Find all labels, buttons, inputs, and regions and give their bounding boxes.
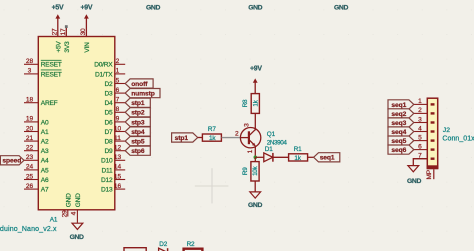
J2 pin 1 [414, 98, 435, 105]
pin 27 +5V (top) [51, 28, 62, 53]
svg-text:10k: 10k [252, 166, 259, 176]
svg-text:28: 28 [26, 58, 34, 65]
svg-text:MP: MP [426, 169, 433, 179]
ground symbol (J2) [407, 166, 421, 186]
svg-text:R1: R1 [294, 146, 302, 153]
svg-text:D7: D7 [104, 129, 113, 136]
svg-text:10: 10 [114, 125, 122, 132]
global label onoff [125, 79, 153, 88]
svg-text:D4: D4 [104, 100, 113, 107]
svg-text:2: 2 [418, 107, 422, 114]
svg-text:3: 3 [28, 68, 32, 75]
svg-text:Conn_01x07: Conn_01x07 [442, 135, 474, 142]
svg-text:GND: GND [75, 193, 82, 207]
svg-text:D2: D2 [159, 241, 167, 248]
svg-text:29: 29 [62, 210, 69, 217]
wire J2 pin7 to ground [413, 159, 428, 166]
svg-text:stp2: stp2 [131, 110, 145, 117]
svg-text:stp1: stp1 [131, 100, 145, 107]
pin 25 A6 (left) [24, 173, 49, 184]
svg-text:A4: A4 [41, 158, 49, 165]
pin 8 D5 (right) [104, 106, 125, 117]
svg-text:11: 11 [114, 135, 121, 142]
global label stp1 [125, 98, 150, 107]
power symbol +9V (top) [81, 5, 93, 37]
svg-text:13: 13 [114, 154, 122, 161]
svg-text:1k: 1k [253, 99, 260, 106]
svg-text:25: 25 [26, 173, 34, 180]
pin 1 D1/TX (right) [95, 68, 125, 79]
resistor R9 [242, 162, 259, 181]
J2 pin 2 [414, 107, 435, 114]
svg-text:D0/RX: D0/RX [94, 62, 113, 69]
svg-text:12: 12 [114, 145, 122, 152]
global label stp1 (input) [172, 133, 198, 142]
svg-text:D1/TX: D1/TX [95, 71, 113, 78]
svg-text:seq1: seq1 [391, 102, 406, 109]
wire D1 to R1 [273, 156, 289, 158]
svg-text:20: 20 [26, 125, 34, 132]
pin 21 A2 (left) [24, 135, 49, 146]
svg-text:1k: 1k [209, 135, 216, 142]
pin 13 D10 (right) [101, 154, 125, 165]
svg-text:14: 14 [114, 164, 122, 171]
svg-text:+5V: +5V [52, 5, 64, 12]
pin 15 D12 (right) [101, 173, 125, 184]
svg-text:Arduino_Nano_v2.x: Arduino_Nano_v2.x [0, 226, 57, 233]
svg-text:A3: A3 [41, 148, 49, 155]
svg-text:seq5: seq5 [391, 138, 406, 145]
svg-text:A5: A5 [41, 167, 49, 174]
global label stp5 [125, 137, 150, 146]
svg-text:D8: D8 [104, 139, 113, 146]
pin 7 D4 (right) [104, 97, 125, 108]
wire R1 to seq1 label [308, 156, 314, 158]
svg-text:R8: R8 [242, 99, 249, 107]
svg-text:R2: R2 [187, 241, 195, 248]
connector J2 body [427, 98, 439, 169]
svg-text:A1: A1 [41, 129, 49, 136]
diode D2 (cut off) [159, 241, 168, 251]
svg-text:stp4: stp4 [131, 129, 145, 136]
junction node (emitter) [254, 156, 258, 160]
svg-text:A6: A6 [41, 177, 49, 184]
svg-text:GND: GND [248, 5, 262, 12]
power symbol +5V [52, 5, 64, 37]
svg-text:4: 4 [418, 125, 422, 132]
resistor R2 (cut off) [184, 241, 203, 251]
ground symbol (R9) [248, 192, 262, 209]
svg-text:18: 18 [26, 97, 34, 104]
svg-text:5: 5 [418, 134, 422, 141]
svg-text:speed: speed [2, 158, 21, 165]
svg-text:9: 9 [116, 116, 120, 123]
svg-text:D9: D9 [104, 148, 113, 155]
pin 26 A7 (left) [24, 183, 49, 194]
resistor R7 [202, 126, 221, 142]
svg-text:30: 30 [80, 28, 87, 35]
J2 pin 6 [414, 143, 435, 150]
svg-text:GND: GND [65, 193, 72, 207]
global label seq1 (J2) [388, 100, 414, 109]
svg-text:VIN: VIN [84, 42, 91, 53]
pin 2 D0/RX (right) [94, 58, 125, 69]
J2 pin MP [426, 169, 434, 179]
J2 pin 5 [414, 134, 435, 141]
svg-text:27: 27 [51, 28, 58, 35]
pin 28 RESET (left) [24, 58, 62, 69]
svg-text:seq4: seq4 [391, 129, 406, 136]
pin 4 GND (bottom) [70, 193, 82, 223]
pin 6 D3 (right) [104, 87, 125, 98]
svg-text:D3: D3 [104, 91, 113, 98]
pin 24 A5 (left) [24, 164, 49, 175]
svg-text:GND: GND [248, 202, 262, 209]
svg-text:stp1: stp1 [175, 135, 189, 142]
pin 3 RESET (left) [24, 68, 62, 79]
pin 30 VIN (top) [80, 28, 91, 53]
svg-text:D13: D13 [101, 187, 113, 194]
svg-text:D2: D2 [104, 81, 113, 88]
svg-text:R9: R9 [242, 167, 249, 175]
svg-text:seq6: seq6 [391, 147, 406, 154]
global label stp6 [125, 146, 150, 155]
svg-text:stp3: stp3 [131, 119, 145, 126]
svg-text:17: 17 [60, 28, 67, 35]
pin 11 D8 (right) [104, 135, 125, 146]
resistor R8 [242, 94, 259, 114]
svg-text:D5: D5 [104, 110, 113, 117]
J2 pin 3 [414, 116, 435, 123]
global label stp4 [125, 127, 150, 136]
svg-text:7: 7 [116, 97, 120, 104]
J2 pin 4 [414, 125, 435, 132]
global label seq1 (near R1) [314, 153, 340, 162]
svg-text:R7: R7 [208, 126, 216, 133]
svg-text:1: 1 [418, 98, 422, 105]
pin 10 D7 (right) [104, 125, 125, 136]
pin 16 D13 (right) [101, 183, 125, 194]
pin 17 3V3 (top) [60, 25, 71, 52]
pin 29 GND (bottom) [62, 193, 73, 217]
svg-text:2: 2 [235, 131, 239, 138]
svg-text:A7: A7 [41, 187, 49, 194]
svg-text:1k: 1k [294, 155, 301, 162]
wire R9 to ground [254, 181, 256, 192]
transistor Q1 2N3904 [235, 123, 287, 157]
wire R8 to Q1 collector [254, 113, 256, 130]
global label numstp [125, 89, 160, 98]
svg-text:Q1: Q1 [267, 131, 276, 138]
pin 14 D11 (right) [102, 164, 126, 175]
svg-text:+9V: +9V [250, 66, 262, 73]
svg-text:seq1: seq1 [320, 155, 335, 162]
svg-text:seq2: seq2 [391, 111, 406, 118]
svg-text:seq3: seq3 [391, 120, 406, 127]
power symbol +9V (middle) [250, 66, 262, 94]
pin 5 D2 (right) [104, 77, 125, 88]
svg-text:A0: A0 [41, 119, 49, 126]
svg-text:6: 6 [418, 143, 422, 150]
svg-text:5: 5 [116, 77, 120, 84]
wire stp1 to R7 [198, 137, 203, 139]
svg-text:AREF: AREF [41, 100, 58, 107]
pin 20 A1 (left) [24, 125, 49, 136]
svg-text:GND: GND [70, 234, 84, 241]
J2 pin 7 [414, 153, 435, 160]
svg-text:3: 3 [418, 116, 422, 123]
svg-text:D11: D11 [102, 167, 113, 174]
global label seq4 (J2) [388, 127, 414, 136]
wire junction to D1 [255, 156, 263, 158]
diode D1 [264, 146, 273, 162]
global label seq5 (J2) [388, 136, 414, 145]
svg-text:6: 6 [116, 87, 120, 94]
svg-text:stp5: stp5 [131, 139, 145, 146]
IC A1 Arduino_Nano body [38, 37, 115, 210]
svg-text:3: 3 [244, 123, 251, 127]
global label seq6 (J2) [388, 145, 414, 154]
svg-text:1: 1 [247, 149, 254, 153]
svg-text:A2: A2 [41, 139, 49, 146]
pin 9 D6 (right) [104, 116, 125, 127]
svg-text:2: 2 [116, 58, 120, 65]
resistor R1 [289, 146, 308, 162]
cursor crosshair [195, 168, 229, 203]
svg-text:21: 21 [26, 135, 34, 142]
svg-text:23: 23 [26, 154, 34, 161]
svg-text:numstp: numstp [131, 91, 155, 98]
svg-text:16: 16 [114, 183, 122, 190]
svg-text:D1: D1 [265, 146, 273, 153]
global label stp2 [125, 108, 150, 117]
svg-text:stp6: stp6 [131, 148, 145, 155]
svg-text:A1: A1 [50, 217, 58, 224]
svg-text:8: 8 [116, 106, 120, 113]
wire R7 to Q1 base (gray) [222, 137, 241, 139]
ground symbol (A1) [70, 223, 84, 241]
pin 12 D9 (right) [104, 145, 125, 156]
wire junction to R9 [254, 157, 256, 161]
svg-text:1: 1 [116, 68, 120, 75]
svg-text:3V3: 3V3 [64, 41, 71, 53]
global label seq3 (J2) [388, 118, 414, 127]
svg-text:22: 22 [26, 145, 34, 152]
svg-text:GND: GND [407, 178, 421, 185]
pin 23 A4 (left) [24, 154, 49, 165]
svg-text:D10: D10 [101, 158, 113, 165]
global label stp3 [125, 117, 150, 126]
svg-text:onoff: onoff [131, 81, 148, 88]
pin 19 A0 (left) [24, 116, 49, 127]
pin 18 AREF (left) [24, 97, 58, 108]
svg-text:26: 26 [26, 183, 34, 190]
svg-text:19: 19 [26, 116, 34, 123]
global label seq2 (J2) [388, 109, 414, 118]
global label speed [0, 156, 24, 165]
svg-text:4: 4 [70, 211, 77, 215]
svg-text:D6: D6 [104, 119, 113, 126]
svg-text:+5V: +5V [56, 41, 63, 53]
svg-text:D12: D12 [101, 177, 113, 184]
svg-text:J2: J2 [443, 127, 450, 134]
component outline (bottom, cut off) [124, 248, 146, 251]
svg-text:15: 15 [114, 173, 122, 180]
svg-text:GND: GND [334, 5, 348, 12]
svg-text:RESET: RESET [41, 62, 62, 69]
pin 22 A3 (left) [24, 145, 49, 156]
svg-text:+9V: +9V [81, 5, 93, 12]
svg-text:RESET: RESET [41, 71, 62, 78]
svg-text:GND: GND [146, 5, 160, 12]
svg-text:24: 24 [26, 164, 34, 171]
